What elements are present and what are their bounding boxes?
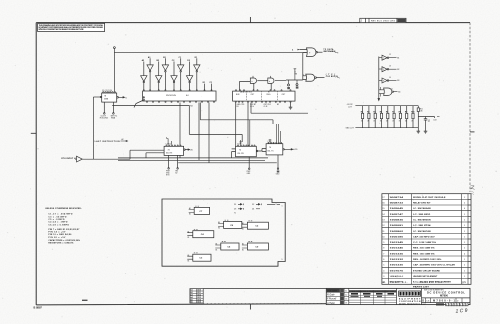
revision status box xyxy=(360,18,406,22)
svg-text:D4: D4 xyxy=(252,209,254,211)
E11 left inputs xyxy=(232,149,236,158)
E12 top pins xyxy=(268,142,269,143)
svg-text:T1: T1 xyxy=(234,213,236,215)
svg-text:C D P: C D P xyxy=(268,141,272,143)
svg-text:74: 74 xyxy=(269,147,271,149)
wire stub right of C1 xyxy=(434,117,436,119)
resistor R8 xyxy=(399,106,401,128)
svg-text:7: 7 xyxy=(449,304,450,306)
resistor R9 xyxy=(406,106,408,128)
D1 output wire xyxy=(316,51,318,53)
svg-text:D2: D2 xyxy=(252,204,254,206)
drawing revision mini table xyxy=(190,289,203,303)
svg-text:B4: B4 xyxy=(398,92,400,94)
resistor R6 xyxy=(387,106,389,128)
capacitor pack C9 xyxy=(247,243,268,250)
svg-text:13: 13 xyxy=(389,66,391,68)
svg-text:11: 11 xyxy=(391,89,393,91)
wire U2 pin to bus (x180) xyxy=(179,103,181,158)
inverter E5 xyxy=(143,62,145,76)
svg-text:NO.: NO. xyxy=(382,282,386,284)
svg-text:UNUSED NET ELEMENT: UNUSED NET ELEMENT xyxy=(413,276,438,278)
svg-text:R3: R3 xyxy=(367,112,369,114)
svg-text:DRN. DATE: DRN. DATE xyxy=(327,290,338,293)
E10 riser wires xyxy=(167,137,169,145)
digital logo xyxy=(398,291,421,297)
IC U1 (M5MB one-shot) xyxy=(102,93,117,102)
parts list row xyxy=(382,244,471,246)
svg-text:1901345: 1901345 xyxy=(390,241,405,244)
bottom strip top line xyxy=(203,288,326,290)
svg-text:7-6: 7-6 xyxy=(345,299,348,301)
svg-text:1K: 1K xyxy=(373,121,375,123)
svg-text:1K: 1K xyxy=(361,121,363,123)
wire: U1 input down to CPU INPUT net xyxy=(92,97,94,159)
AND gate D4 xyxy=(268,78,274,83)
E11 output to E12 xyxy=(256,150,258,152)
test point TP1 xyxy=(288,80,290,84)
ground under C1 xyxy=(424,130,428,134)
bus wire y158 xyxy=(118,157,268,159)
capacitor pack C2 xyxy=(247,222,268,229)
svg-text:C.C. 3.3K 1/4W 5%: C.C. 3.3K 1/4W 5% xyxy=(413,241,436,244)
svg-text:B1: B1 xyxy=(216,249,218,251)
resistor network bottom rail xyxy=(355,127,418,129)
svg-text:1901330: 1901330 xyxy=(390,265,405,267)
U3 bottom pins xyxy=(235,101,236,102)
parts list row xyxy=(382,249,471,251)
wire U2 pin to bus (x209) xyxy=(208,103,210,163)
svg-text:1K: 1K xyxy=(380,121,382,123)
svg-text:RELAY DRV KIT: RELAY DRV KIT xyxy=(413,201,431,204)
svg-text:3: 3 xyxy=(383,80,384,82)
svg-text:M7800: M7800 xyxy=(440,294,448,298)
U1 bottom stub CLK xyxy=(103,102,105,113)
vertical feed wire for buffer column xyxy=(378,57,380,101)
svg-text:C1: C1 xyxy=(428,119,430,121)
U1 bottom stub RC xyxy=(112,102,114,113)
D1 input wires xyxy=(300,50,308,53)
svg-text:digital: digital xyxy=(400,292,420,296)
svg-text:RES. .001MFD 100V 20%: RES. .001MFD 100V 20% xyxy=(413,259,442,261)
svg-text:1K: 1K xyxy=(405,121,407,123)
svg-text:1905645: 1905645 xyxy=(390,207,405,210)
svg-text:REG: REG xyxy=(267,94,271,96)
svg-text:.01: .01 xyxy=(428,121,430,123)
wire: long net A to OR gate D1 (y=52.5) xyxy=(114,52,306,54)
svg-text:2: 2 xyxy=(383,69,384,71)
svg-text:4: 4 xyxy=(457,304,458,306)
inverter E7 xyxy=(173,62,175,76)
inverter E2 xyxy=(164,58,166,65)
svg-text:IN WHOLE OR IN PART AS THE BAS: IN WHOLE OR IN PART AS THE BASIS FOR MAN… xyxy=(39,28,85,31)
margin scribble xyxy=(471,185,475,189)
svg-text:74: 74 xyxy=(239,150,241,152)
svg-text:9107570: 9107570 xyxy=(390,270,405,272)
bus wire y163 xyxy=(178,162,277,164)
wire D3 out to D4 xyxy=(257,80,268,82)
ground below U3 xyxy=(290,103,292,106)
flip-flop E11 xyxy=(236,146,257,156)
wire from U1 RC stub to net R2 xyxy=(112,104,189,106)
svg-text:PIN 14 = +5V: PIN 14 = +5V xyxy=(48,231,66,234)
bus wire y160 xyxy=(118,159,265,161)
wire to capacitor C1 xyxy=(418,116,434,118)
ground under R11 xyxy=(417,130,421,134)
right margin tick xyxy=(470,131,475,133)
capacitor pack C7 xyxy=(194,207,209,214)
E10 top pins xyxy=(166,145,167,146)
parts list row xyxy=(382,198,471,200)
svg-text:3: 3 xyxy=(460,304,461,306)
E11 bottom stub xyxy=(248,157,250,168)
svg-text:HOLDING: HOLDING xyxy=(100,118,109,120)
svg-text:A6: A6 xyxy=(190,301,192,304)
svg-text:B1: B1 xyxy=(397,57,399,59)
svg-text:R4: R4 xyxy=(373,111,375,114)
resistor R4 xyxy=(374,106,376,128)
resistor R11 right leg xyxy=(417,106,419,108)
D2 output wire xyxy=(315,77,317,79)
svg-text:5MB: 5MB xyxy=(104,99,109,101)
svg-text:C18: C18 xyxy=(433,120,436,122)
svg-text:5: 5 xyxy=(455,304,456,306)
title block outline xyxy=(326,288,470,304)
parts list row xyxy=(382,204,471,206)
parts list row xyxy=(382,266,471,268)
svg-text:LAST INSTRUCTION: LAST INSTRUCTION xyxy=(95,140,121,143)
parts list row xyxy=(382,227,471,229)
OR gate D1 xyxy=(307,48,316,57)
svg-text:B1: B1 xyxy=(242,229,244,231)
svg-text:PIN 7 = GND E1 E2,E3,E5,E7: PIN 7 = GND E1 E2,E3,E5,E7 xyxy=(48,229,80,231)
svg-text:9008733: 9008733 xyxy=(390,202,405,204)
resistor R5 xyxy=(381,106,383,128)
module board outline xyxy=(162,199,285,266)
buffer gate F2 xyxy=(379,68,382,70)
svg-text:GND LL H: GND LL H xyxy=(346,128,355,130)
parts list row xyxy=(382,261,471,263)
drawing/parts grid xyxy=(349,290,397,292)
svg-text:F.Purcell: F.Purcell xyxy=(327,298,337,301)
svg-text:RESISTORS = 1/4W,5%: RESISTORS = 1/4W,5% xyxy=(48,242,73,245)
svg-text:THIS DRAWING & PARTS EQUIPMENT: THIS DRAWING & PARTS EQUIPMENT LIST xyxy=(351,290,396,293)
svg-text:B2: B2 xyxy=(277,104,279,106)
svg-text:6: 6 xyxy=(452,304,453,306)
svg-text:2: 2 xyxy=(463,304,464,306)
svg-text:R7: R7 xyxy=(392,112,394,114)
bottom border dashes xyxy=(203,303,326,305)
svg-text:CORPORATION: CORPORATION xyxy=(399,300,421,303)
svg-text:CLR BUF(1): CLR BUF(1) xyxy=(326,76,338,78)
capacitor pack C4 xyxy=(193,231,214,238)
bottom center fold tick xyxy=(249,304,251,310)
svg-text:B1: B1 xyxy=(188,261,190,263)
wire: U1 pin up to node A xyxy=(113,49,115,92)
node B vertical (feeds OR gates) xyxy=(302,53,304,80)
parts list row xyxy=(382,255,471,257)
svg-text:B1: B1 xyxy=(189,214,191,216)
U2 bottom pins xyxy=(146,101,147,102)
svg-text:R8: R8 xyxy=(399,112,401,114)
svg-text:R2: R2 xyxy=(361,112,363,114)
svg-text:B1: B1 xyxy=(237,106,239,108)
svg-text:7-1: 7-1 xyxy=(345,290,348,292)
resistor R3 xyxy=(368,106,370,128)
svg-text:E7: E7 xyxy=(268,92,270,94)
inverter E1 xyxy=(149,58,151,65)
U1 output wire with bubble and arrow xyxy=(117,97,119,99)
table right edge strip rows xyxy=(468,198,471,200)
E10 bottom stub 1 xyxy=(168,155,170,167)
resistor R10 xyxy=(412,106,414,128)
D2 input wires xyxy=(303,76,306,80)
svg-text:PART NO.: PART NO. xyxy=(390,281,408,284)
cpu net vertical joins xyxy=(129,150,131,159)
svg-text:1905747: 1905747 xyxy=(390,213,405,216)
sheet revision boxes xyxy=(446,303,449,306)
svg-text:65L RX: 65L RX xyxy=(238,153,245,155)
top center fold tick xyxy=(249,17,251,23)
svg-text:1K: 1K xyxy=(411,121,413,123)
svg-text:ETCHED CIRCUIT BOARD: ETCHED CIRCUIT BOARD xyxy=(413,269,441,272)
svg-text:1: 1 xyxy=(466,304,467,306)
svg-text:1K: 1K xyxy=(367,121,369,123)
wire D4 out to node B xyxy=(275,79,303,82)
svg-text:CAP. .0047MFD 100V 20% CL MYLA: CAP. .0047MFD 100V 20% CL MYLAR xyxy=(413,264,455,267)
svg-text:L: L xyxy=(339,77,340,79)
wire net y120 xyxy=(200,103,273,125)
flip-flop E10 xyxy=(164,146,184,155)
D4 top stub xyxy=(269,76,271,78)
parts list row xyxy=(382,238,471,240)
D4 bottom return to U3 xyxy=(270,83,272,90)
svg-text:I.C. SN74H74N: I.C. SN74H74N xyxy=(413,230,431,233)
E12 output xyxy=(283,149,285,151)
left margin tick xyxy=(31,132,36,134)
svg-text:D3: D3 xyxy=(234,209,236,211)
E10 left inputs xyxy=(130,150,164,158)
capacitor C1 xyxy=(424,117,427,130)
E12 riser wires xyxy=(276,129,280,143)
svg-text:CS: CS xyxy=(426,301,430,303)
svg-text:CAP. 330 MFD 35V: CAP. 330 MFD 35V xyxy=(413,235,435,238)
signature section xyxy=(348,288,350,304)
svg-text:I.C. SN74H04N: I.C. SN74H04N xyxy=(413,207,431,210)
svg-text:1K: 1K xyxy=(392,121,394,123)
buffer gate F1 xyxy=(379,57,382,59)
resistor R2 xyxy=(362,106,364,128)
svg-text:R5: R5 xyxy=(380,112,382,114)
svg-text:T D P C: T D P C xyxy=(237,143,243,145)
parts list row xyxy=(382,272,471,274)
parts list row xyxy=(382,215,471,217)
svg-text:RES. 150 1/4W 5%: RES. 150 1/4W 5% xyxy=(413,252,435,255)
svg-text:I.C. 380 8251: I.C. 380 8251 xyxy=(413,214,432,216)
svg-text:SN74154N: SN74154N xyxy=(166,95,176,97)
svg-text:B2: B2 xyxy=(175,173,177,175)
svg-text:REV ECO DWG CHG: REV ECO DWG CHG xyxy=(371,21,395,23)
svg-text:12: 12 xyxy=(389,54,391,56)
svg-text:2: 2 xyxy=(303,74,304,76)
svg-text:1515: 1515 xyxy=(197,302,201,304)
E10 output xyxy=(184,149,186,151)
stub with flag above wire xyxy=(294,69,297,80)
svg-text:PIN 20 = +5V: PIN 20 = +5V xyxy=(48,237,66,239)
IC U3 control block xyxy=(233,91,295,101)
svg-text:C2,C4 = .1MFD: C2,C4 = .1MFD xyxy=(48,221,68,224)
U3 top pins xyxy=(235,90,236,91)
svg-text:D1: D1 xyxy=(234,204,236,206)
svg-text:1 C 9: 1 C 9 xyxy=(455,308,468,315)
svg-text:CPU INPUT H: CPU INPUT H xyxy=(61,158,76,160)
svg-text:R10: R10 xyxy=(411,112,414,114)
capacitor pack C3 xyxy=(193,254,211,261)
svg-text:65L TX: 65L TX xyxy=(268,151,275,153)
svg-text:C1 C2 C3 C4: C1 C2 C3 C4 xyxy=(102,90,112,92)
svg-text:UNLESS OTHERWISE INDICATED:: UNLESS OTHERWISE INDICATED: xyxy=(45,207,82,210)
svg-text:B1: B1 xyxy=(188,237,190,239)
D3 input wire from U3 xyxy=(240,82,251,91)
E11 top pins xyxy=(237,145,238,146)
svg-text:M7800-0-1: M7800-0-1 xyxy=(433,299,456,303)
E12 bottom stub xyxy=(277,155,279,168)
capacitor pack C8 xyxy=(224,221,242,228)
capacitor pack C6 xyxy=(221,243,239,250)
U1 top pins xyxy=(103,92,104,93)
svg-text:9: 9 xyxy=(282,259,283,261)
svg-text:74: 74 xyxy=(168,149,170,151)
svg-text:1K: 1K xyxy=(386,121,388,123)
parts list row xyxy=(382,278,471,280)
parts list row xyxy=(382,221,471,223)
U1 left input wire xyxy=(93,96,101,98)
svg-text:C6,C8 = 6.8MFD: C6,C8 = 6.8MFD xyxy=(48,224,69,226)
svg-text:1901340: 1901340 xyxy=(390,247,405,250)
U2 left pin cluster xyxy=(143,97,144,98)
svg-text:9008734: 9008734 xyxy=(390,196,405,199)
svg-text:I.C. 380 8T24: I.C. 380 8T24 xyxy=(413,224,432,227)
number row xyxy=(422,297,471,299)
svg-text:R9: R9 xyxy=(405,112,407,114)
svg-text:1905862: 1905862 xyxy=(390,231,405,233)
inverter E4 xyxy=(196,58,198,65)
svg-text:1: 1 xyxy=(282,206,283,208)
svg-text:1905835: 1905835 xyxy=(390,219,405,221)
svg-text:C1,C7 = .0047MFD: C1,C7 = .0047MFD xyxy=(48,213,73,216)
sheet border frame xyxy=(36,23,470,305)
wire U3 pin to bus x235.7 xyxy=(235,103,237,147)
direct input stub P1 xyxy=(204,84,206,91)
resistor network top rail +5V xyxy=(355,105,418,107)
svg-text:8: 8 xyxy=(446,304,447,306)
svg-text:R.Gale: R.Gale xyxy=(327,294,335,297)
svg-text:7-8: 7-8 xyxy=(345,303,348,305)
D3 bottom return to U3 xyxy=(253,83,255,90)
svg-text:B2: B2 xyxy=(397,69,399,71)
svg-text:DIST.: DIST. xyxy=(423,304,427,306)
svg-text:1: 1 xyxy=(383,58,384,60)
resistor R7 xyxy=(393,106,395,128)
parts list table xyxy=(382,194,471,285)
test point TP2 xyxy=(296,80,298,84)
svg-text:WAIT ENABLE: WAIT ENABLE xyxy=(323,50,336,53)
D3 top stub xyxy=(252,76,254,78)
svg-text:B3: B3 xyxy=(397,80,399,82)
svg-text:R6: R6 xyxy=(386,112,388,114)
OR gate F4 xyxy=(384,88,392,95)
parts list row xyxy=(382,232,471,234)
svg-text:14: 14 xyxy=(389,77,391,79)
parts list row xyxy=(382,210,471,212)
svg-text:65L RX: 65L RX xyxy=(166,152,173,154)
svg-text:I.C. SN74H00N: I.C. SN74H00N xyxy=(413,218,431,221)
OR gate D2 xyxy=(306,74,315,81)
inverter E6 xyxy=(158,62,160,76)
flip-flop E12 xyxy=(266,144,283,155)
svg-text:1905081: 1905081 xyxy=(390,225,405,227)
copyright notice box xyxy=(38,23,105,31)
svg-text:C D P C: C D P C xyxy=(166,143,172,145)
svg-text:MODEL FLIP CHIP / MODULE: MODEL FLIP CHIP / MODULE xyxy=(413,197,446,199)
E11 riser wires xyxy=(239,140,242,145)
svg-text:1905180: 1905180 xyxy=(390,236,405,238)
svg-text:D: D xyxy=(422,300,424,303)
svg-text:1901335: 1901335 xyxy=(390,253,405,255)
svg-text:B1: B1 xyxy=(242,249,244,251)
inverter E3 xyxy=(180,58,182,65)
wire U2 pin to bus (x199) xyxy=(198,103,200,161)
svg-text:180: 180 xyxy=(420,110,423,112)
inverter E8 xyxy=(189,62,191,76)
svg-text:1901332: 1901332 xyxy=(390,259,405,261)
AND gate D3 xyxy=(250,78,256,83)
svg-text:PIN 10 = GND E4,E6: PIN 10 = GND E4,E6 xyxy=(48,233,72,236)
svg-text:7-2: 7-2 xyxy=(345,294,348,296)
svg-text:1K: 1K xyxy=(399,121,401,123)
buffer gate Q1 (cpu input) xyxy=(77,156,83,162)
wire net y134 xyxy=(189,105,242,142)
wire: cpu input net xyxy=(82,158,130,160)
buffer gate F3 xyxy=(379,79,382,81)
direct input stub P2 xyxy=(211,84,213,91)
svg-text:B 8897: B 8897 xyxy=(34,306,43,310)
svg-text:B1: B1 xyxy=(218,228,220,230)
E10 bottom stub 2 xyxy=(177,155,179,167)
wire U3 pin to bus x248 xyxy=(247,103,249,147)
E12 top T-flag xyxy=(269,140,272,142)
IC U2 long register block xyxy=(143,91,216,101)
svg-text:RES. 330 1/4W 5%: RES. 330 1/4W 5% xyxy=(413,247,435,250)
node A junction circle xyxy=(114,47,116,49)
wire net y113 xyxy=(251,103,308,114)
svg-text:R11: R11 xyxy=(420,109,423,111)
wire from U2 lower-left going left-down xyxy=(134,101,143,108)
svg-text:CAPACITORS = .01UF,50V,20%: CAPACITORS = .01UF,50V,20% xyxy=(48,239,80,242)
